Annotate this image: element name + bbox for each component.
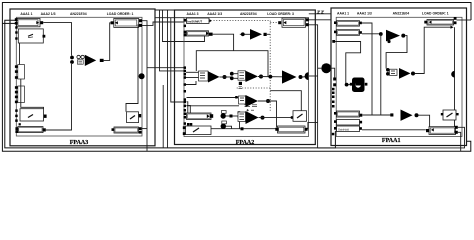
- svg-text:LOAD ORDER: 3: LOAD ORDER: 3: [267, 12, 294, 16]
- svg-text:GainHold: GainHold: [338, 127, 349, 131]
- svg-text:AN221E04: AN221E04: [70, 12, 87, 16]
- svg-text:AN221E04: AN221E04: [240, 12, 257, 16]
- svg-text:AAA1 3: AAA1 3: [187, 12, 199, 16]
- svg-text:FPAA2: FPAA2: [236, 140, 255, 146]
- svg-text:AAA2 1/3: AAA2 1/3: [207, 12, 222, 16]
- svg-text:AAA2 1/3: AAA2 1/3: [41, 12, 56, 16]
- svg-text:LOAD ORDER: 1: LOAD ORDER: 1: [422, 12, 449, 16]
- svg-text:AN221E04: AN221E04: [393, 12, 410, 16]
- svg-text:InvSUM/UT: InvSUM/UT: [187, 19, 202, 23]
- svg-text:LOAD ORDER: 1: LOAD ORDER: 1: [107, 12, 134, 16]
- svg-text:FPAA3: FPAA3: [70, 140, 89, 146]
- svg-text:AAA2 1/3: AAA2 1/3: [357, 12, 372, 16]
- svg-text:AAA1 1: AAA1 1: [20, 12, 32, 16]
- svg-text:AAA1 1: AAA1 1: [337, 12, 349, 16]
- svg-text:FPAA1: FPAA1: [382, 138, 401, 144]
